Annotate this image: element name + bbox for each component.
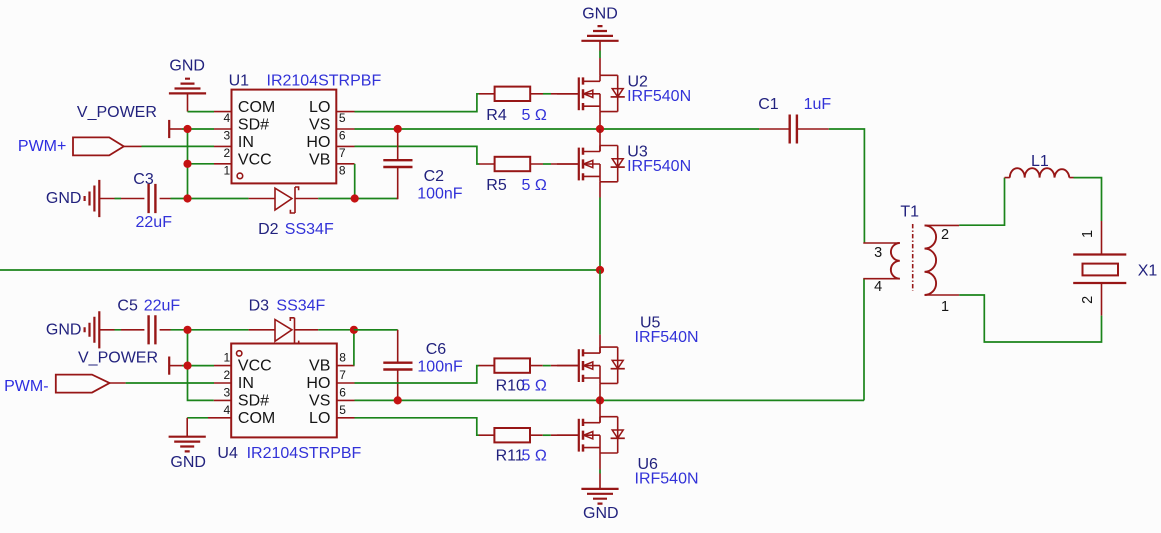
svg-text:IR2104STRPBF: IR2104STRPBF [267, 73, 382, 90]
svg-text:5 Ω: 5 Ω [522, 448, 547, 465]
wire U4 COM to GND [187, 417, 208, 419]
transistor U3 IRF540N [557, 129, 691, 198]
resistor R10 [479, 358, 579, 394]
svg-text:5 Ω: 5 Ω [522, 107, 547, 124]
wire U4 VS long wire [355, 399, 865, 401]
svg-text:1: 1 [224, 163, 231, 177]
svg-text:100nF: 100nF [417, 358, 463, 375]
svg-text:22uF: 22uF [136, 214, 173, 231]
power flag V_POWER (bottom) [78, 350, 182, 375]
pin 3 SD# [214, 128, 232, 130]
svg-text:C1: C1 [758, 96, 779, 113]
junction VB/D3 [350, 326, 358, 334]
svg-text:VS: VS [309, 392, 330, 409]
svg-text:4: 4 [874, 279, 882, 295]
svg-text:IN: IN [238, 134, 254, 151]
wire U1 VB down to D2 node [354, 164, 356, 199]
pin 8 VB [337, 365, 355, 367]
svg-text:SD#: SD# [238, 392, 269, 409]
svg-text:4: 4 [224, 111, 231, 125]
resistor R5 [479, 157, 579, 194]
pin 4 COM [208, 417, 231, 419]
svg-text:7: 7 [339, 368, 346, 382]
svg-text:IR2104STRPBF: IR2104STRPBF [247, 445, 362, 462]
pin 2 IN [214, 382, 231, 384]
core line [912, 224, 914, 291]
wire U1 HO to R5 [355, 146, 480, 164]
pin 7 HO [337, 382, 355, 384]
resistor R11 [479, 428, 579, 465]
svg-text:V_POWER: V_POWER [78, 350, 158, 367]
svg-text:3: 3 [224, 385, 231, 399]
svg-text:GND: GND [583, 505, 619, 522]
diode D2 SS34F [188, 187, 398, 238]
svg-text:GND: GND [46, 321, 82, 338]
wire V_POWER to node [182, 128, 214, 130]
svg-text:5: 5 [339, 111, 346, 125]
wire GND to U1 pin 4 [188, 111, 215, 113]
svg-text:PWM+: PWM+ [18, 138, 66, 155]
svg-text:VCC: VCC [238, 358, 272, 375]
svg-text:2: 2 [224, 368, 231, 382]
pin 5 LO [336, 111, 354, 113]
capacitor C2 [383, 129, 462, 202]
svg-text:3: 3 [224, 129, 231, 143]
IC U4 IR2104STRPBF [208, 344, 362, 463]
junction VB/D2 [351, 194, 359, 202]
wire T1 pin 2 to L1 [959, 178, 1004, 226]
transistor U6 IRF540N [557, 400, 699, 487]
pin 4 [863, 278, 900, 280]
transistor U5 IRF540N [557, 315, 699, 401]
svg-text:C5: C5 [117, 298, 138, 315]
svg-text:PWM-: PWM- [4, 378, 48, 395]
pin 7 HO [336, 145, 354, 147]
wire U1 VS long wire to C1 [355, 128, 760, 130]
pin 6 VS [337, 399, 355, 401]
svg-text:R4: R4 [486, 107, 507, 124]
wire U6 source [599, 470, 601, 474]
svg-text:U4: U4 [217, 445, 238, 462]
wire node to U1 pin 1 VCC [188, 163, 215, 165]
svg-text:R11: R11 [496, 448, 524, 465]
svg-text:SS34F: SS34F [285, 221, 334, 238]
junction C3/D2 node [183, 194, 191, 202]
pin 3 [863, 242, 900, 244]
svg-text:SS34F: SS34F [276, 298, 325, 315]
pin 1 [925, 294, 960, 296]
primary winding [891, 243, 900, 279]
junction mid node [596, 266, 604, 274]
IC U1 IR2104STRPBF [214, 73, 381, 184]
pin 1 VCC [214, 163, 232, 165]
svg-text:5: 5 [339, 403, 346, 417]
pin 2 IN [214, 145, 232, 147]
svg-text:GND: GND [582, 5, 618, 22]
transformer T1 [863, 203, 959, 315]
power flag GND (left of C3, rotated) [46, 180, 99, 217]
svg-text:COM: COM [238, 99, 275, 116]
svg-text:1: 1 [224, 351, 231, 365]
svg-text:COM: COM [238, 410, 275, 427]
svg-text:7: 7 [339, 146, 346, 160]
resistor R4 [479, 87, 579, 124]
wire PWM- to U4 pin 2 IN [126, 382, 214, 384]
svg-text:LO: LO [309, 410, 330, 427]
global label PWM+ [18, 137, 142, 155]
svg-text:5 Ω: 5 Ω [522, 177, 547, 194]
svg-text:V_POWER: V_POWER [77, 104, 157, 121]
pin 3 SD# [214, 399, 231, 401]
svg-text:1uF: 1uF [804, 96, 832, 113]
power flag GND (top, above U2) [581, 5, 618, 58]
wire L1 to X1 pin 1 [1074, 178, 1102, 221]
wire U4 LO to R11 [355, 418, 480, 435]
power flag GND (below U6) [581, 474, 618, 523]
svg-text:IRF540N: IRF540N [627, 158, 691, 175]
svg-text:VS: VS [309, 117, 330, 134]
svg-text:C6: C6 [426, 341, 447, 358]
svg-text:D2: D2 [258, 221, 279, 238]
junction C6 bottom [394, 396, 402, 404]
svg-text:2: 2 [224, 146, 231, 160]
pin 6 VS [336, 128, 354, 130]
svg-text:1: 1 [941, 299, 949, 315]
wire U4 VB up to D3 node [353, 330, 355, 366]
wire U3 source down to mid node [599, 198, 601, 271]
pin 1 VCC [214, 365, 231, 367]
capacitor C6 [354, 330, 463, 401]
svg-text:R5: R5 [486, 177, 507, 194]
svg-text:VCC: VCC [238, 151, 272, 168]
transistor U2 IRF540N [557, 58, 691, 129]
junction C5/D3 node [183, 326, 191, 334]
svg-text:2: 2 [1080, 296, 1096, 304]
wire C1 to T1 pin 3 [829, 129, 865, 243]
capacitor C5 [99, 298, 187, 345]
junction VCC branch [183, 160, 191, 168]
wire mid node down to U5 [599, 270, 601, 335]
pin 4 COM [214, 111, 232, 113]
svg-text:6: 6 [339, 385, 346, 399]
wire vertical C5 node to SD# [188, 330, 214, 401]
wire vertical V_POWER / VCC / C3 node [187, 129, 189, 199]
junction C2 top [394, 125, 402, 133]
svg-text:3: 3 [874, 245, 882, 261]
wire VS bottom to T1 pin 4 [863, 279, 865, 401]
svg-text:C3: C3 [133, 171, 154, 188]
power flag V_POWER (top) [77, 104, 182, 138]
svg-text:GND: GND [46, 190, 82, 207]
wire U4 HO to R10 [355, 366, 480, 383]
wire V_POWER to U4 pin 1 [182, 365, 214, 367]
svg-text:IRF540N: IRF540N [635, 470, 699, 487]
svg-text:VB: VB [309, 358, 330, 375]
svg-text:IRF540N: IRF540N [635, 329, 699, 346]
inductor L1 [1005, 153, 1074, 178]
svg-text:IRF540N: IRF540N [627, 88, 691, 105]
junction VCC U4 [183, 362, 191, 370]
wire X1 pin 2 around to T1 pin 1 [959, 295, 1101, 342]
svg-text:X1: X1 [1138, 263, 1158, 280]
power flag GND (left of C5, rotated) [46, 311, 99, 348]
svg-text:LO: LO [309, 99, 330, 116]
svg-text:4: 4 [224, 403, 231, 417]
svg-text:GND: GND [170, 454, 206, 471]
svg-text:HO: HO [306, 375, 330, 392]
svg-text:8: 8 [339, 351, 346, 365]
crystal X1 [1073, 221, 1157, 316]
wire long middle net [0, 269, 600, 271]
svg-text:GND: GND [169, 58, 205, 75]
capacitor C1 [758, 96, 831, 144]
svg-text:5 Ω: 5 Ω [522, 377, 547, 394]
global label PWM- [4, 375, 126, 395]
pin 8 VB [336, 163, 354, 165]
svg-text:100nF: 100nF [417, 185, 463, 202]
svg-text:U1: U1 [229, 73, 250, 90]
svg-text:1: 1 [1080, 230, 1096, 238]
svg-text:D3: D3 [249, 298, 270, 315]
power flag GND (below U4 COM) [169, 418, 206, 471]
svg-text:HO: HO [306, 134, 330, 151]
secondary winding [925, 225, 937, 295]
svg-text:8: 8 [339, 163, 346, 177]
pin 2 [925, 224, 960, 226]
svg-text:T1: T1 [900, 203, 919, 220]
svg-text:C2: C2 [424, 168, 445, 185]
svg-text:22uF: 22uF [144, 298, 181, 315]
wire PWM+ to U1 pin 2 IN [142, 145, 215, 147]
svg-text:6: 6 [339, 129, 346, 143]
capacitor C3 [99, 171, 187, 231]
diode D3 SS34F [188, 298, 398, 344]
svg-text:IN: IN [238, 375, 254, 392]
wire U1 LO to R4 [355, 94, 480, 112]
svg-text:VB: VB [309, 151, 330, 168]
svg-text:SD#: SD# [238, 117, 269, 134]
junction SD#/V_POWER [183, 125, 191, 133]
svg-text:2: 2 [941, 227, 949, 243]
power flag GND (above U1) [169, 58, 206, 112]
junction VS top node [596, 125, 604, 133]
pin 5 LO [337, 417, 355, 419]
junction VS bottom node [596, 396, 604, 404]
